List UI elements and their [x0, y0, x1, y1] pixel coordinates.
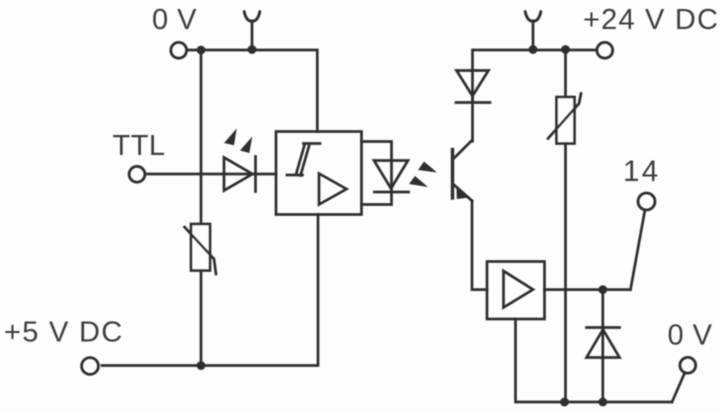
wire amplifier bottom to bottom rail — [516, 319, 673, 402]
terminal 0 V top-left — [171, 42, 187, 58]
wire emitter to amplifier U2 — [472, 201, 487, 290]
wire freewheel diode branch — [601, 290, 604, 402]
node junction bottom rail diode — [598, 398, 607, 407]
wire amplifier output — [545, 288, 631, 291]
diode D4 freewheel — [587, 328, 620, 358]
wire +24V rail — [473, 50, 597, 103]
svg-text:+5 V DC: +5 V DC — [4, 317, 124, 349]
terminal TTL — [129, 166, 145, 182]
svg-text:TTL: TTL — [113, 130, 166, 162]
diode D3 top right — [456, 71, 490, 103]
terminal +24V — [597, 42, 613, 58]
terminal +5V — [82, 358, 99, 375]
Schmitt trigger hysteresis symbol — [287, 144, 320, 176]
op-amp U1 box (Schmitt trigger + amplifier) — [276, 132, 362, 215]
diode D1 input — [224, 157, 256, 192]
node junction bottom left rail — [197, 361, 206, 370]
wire 0V terminal to bottom rail — [672, 375, 684, 403]
terminal 14 — [638, 193, 655, 210]
phototransistor Q1 — [453, 141, 473, 201]
wire 0V terminal to corner and down to box top — [187, 50, 317, 132]
light arrows to phototransistor — [409, 162, 437, 188]
amplifier triangle in U1 — [319, 174, 347, 205]
node junction at left fork — [248, 45, 257, 54]
wire TTL to box — [145, 173, 276, 176]
node junction varistor R2 branch — [561, 45, 570, 54]
LED block rectangle of optocoupler — [362, 142, 392, 205]
wire varistor to bottom rail — [200, 271, 203, 366]
wire varistor R2 branch — [564, 50, 567, 98]
fork terminal left — [244, 12, 260, 50]
switch contact 14 — [631, 211, 645, 289]
svg-text:0 V: 0 V — [152, 4, 197, 36]
wire vertical to varistor R1 — [200, 50, 203, 224]
wire varistor R2 down to bottom rail — [564, 144, 567, 403]
terminal 0V bottom right — [680, 357, 696, 373]
node junction bottom rail varistor — [560, 398, 569, 407]
node junction right fork — [529, 45, 538, 54]
svg-text:14: 14 — [623, 155, 661, 188]
wire diode D3 to transistor collector — [471, 96, 474, 141]
fork terminal right — [525, 12, 541, 50]
varistor R2 — [548, 94, 581, 144]
svg-text:+24 V DC: +24 V DC — [583, 4, 719, 36]
opto LED D2 — [374, 161, 409, 193]
node junction diode branch — [598, 285, 607, 294]
node junction at 0V branch — [197, 46, 206, 55]
LED arrows input (emission) — [224, 129, 252, 154]
amplifier U2 box — [487, 262, 545, 320]
varistor R1 — [185, 224, 217, 274]
svg-text:0 V: 0 V — [668, 320, 713, 352]
wire box bottom to bottom rail — [102, 215, 318, 366]
